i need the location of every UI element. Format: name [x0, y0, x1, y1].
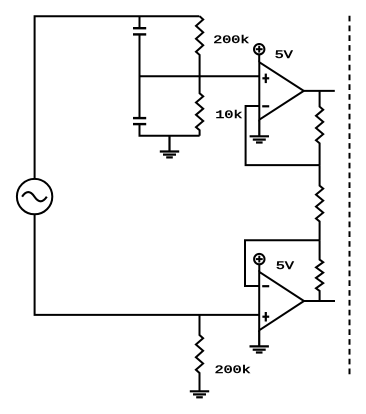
wire from C2 to 10k bottom: [140, 124, 200, 136]
ground G4 under R6: [190, 391, 209, 397]
resistor R1 200k: [196, 16, 203, 76]
op-amp U2 triangle: [259, 272, 304, 331]
svg-text:200k: 200k: [213, 34, 249, 47]
wire U1 power stem: [258, 54, 260, 62]
svg-text:10k: 10k: [215, 109, 242, 122]
resistor R5 bottom of ladder: [316, 240, 323, 301]
wire U2 inverting input feedback: [245, 240, 320, 286]
power supply symbol U1 circled plus: [254, 44, 264, 54]
ground G3 under op-amp U2: [250, 330, 269, 352]
wire top rail and left rail: [35, 16, 200, 179]
wire U1 output: [304, 90, 335, 92]
capacitor C2 bottom plate: [133, 123, 146, 125]
ground G1 on capacitor branch: [160, 136, 179, 158]
svg-text:5V: 5V: [276, 259, 294, 272]
capacitor C1 top plate: [133, 27, 146, 29]
op-amp U2 plus input glyph: [262, 312, 269, 322]
resistor R6 200k bottom: [196, 315, 203, 391]
wire noninverting input U1: [140, 75, 260, 77]
dashed boundary line: [349, 16, 351, 375]
wire left rail lower and bottom rail: [35, 214, 260, 315]
svg-text:200k: 200k: [215, 364, 251, 377]
svg-text:5V: 5V: [275, 49, 293, 62]
op-amp U1 minus input glyph: [262, 105, 269, 107]
op-amp U2 minus input glyph: [262, 285, 269, 287]
op-amp U1 triangle: [259, 62, 304, 119]
op-amp U1 plus input glyph: [262, 74, 269, 84]
resistor R3 top of ladder: [316, 91, 323, 165]
resistor R2 10k: [196, 76, 203, 136]
capacitor C1 bottom plate: [133, 33, 146, 35]
wire U2 power stem: [258, 264, 260, 272]
wire U2 output: [304, 300, 335, 302]
AC source V1 circle: [17, 179, 52, 214]
capacitor C2 top plate: [133, 117, 146, 119]
ground G2 under op-amp U1: [250, 120, 269, 143]
AC source V1 sine wave: [22, 192, 47, 201]
wire U1 inverting input feedback: [246, 106, 320, 165]
power supply symbol U2 circled plus: [254, 254, 264, 264]
wire capacitor branch upper stub: [139, 16, 141, 28]
wire between C1 and C2: [139, 34, 141, 118]
resistor R4 middle of ladder: [316, 165, 323, 240]
